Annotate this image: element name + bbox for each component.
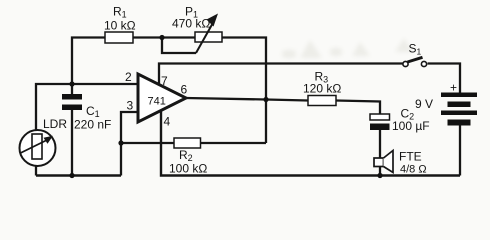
switch S1 contact right xyxy=(421,61,426,66)
svg-text:LDR: LDR xyxy=(43,117,67,131)
wire: P1 right to feedback vertical xyxy=(222,38,266,144)
svg-text:7: 7 xyxy=(161,74,168,88)
capacitor C2 plates xyxy=(370,114,390,130)
battery B1 short plate 2 xyxy=(448,120,471,126)
junction dot: C1 bottom rail xyxy=(69,173,74,178)
svg-text:4: 4 xyxy=(164,115,171,129)
wire: bottom-left rail xyxy=(36,174,121,176)
potentiometer P1 body xyxy=(195,32,222,42)
junction dot: R1/P1 node xyxy=(159,35,164,40)
LDR arrowhead xyxy=(44,136,54,144)
switch S1 contact left xyxy=(403,61,408,66)
junction dot: pin3/R2 node xyxy=(118,140,123,145)
svg-text:6: 6 xyxy=(181,83,188,97)
junction dot: output node xyxy=(263,97,268,102)
wire: pin7 supply to switch xyxy=(159,64,403,85)
wire: C1 bottom leg xyxy=(71,110,73,176)
svg-text:220 nF: 220 nF xyxy=(74,118,111,132)
wire: C2 to speaker xyxy=(379,130,381,158)
battery B1 positive long plate 2 xyxy=(441,111,477,116)
LDR arrow xyxy=(21,140,49,154)
svg-text:3: 3 xyxy=(127,99,134,113)
svg-text:100 µF: 100 µF xyxy=(392,119,430,133)
wire: R1 to P1 xyxy=(133,36,195,38)
battery B1 short plate 1 xyxy=(448,102,471,108)
svg-text:741: 741 xyxy=(148,96,166,108)
wire: battery negative lead xyxy=(459,126,461,176)
svg-text:+: + xyxy=(450,81,457,95)
wire: R1 left leg xyxy=(72,38,105,85)
op-amp U1 741 triangle xyxy=(138,74,186,122)
potentiometer P1 arrowhead xyxy=(207,14,219,27)
speaker FTE frame xyxy=(374,158,384,167)
wire: R2 right leg xyxy=(201,142,267,144)
battery B1 positive long plate 1 xyxy=(441,93,477,98)
wire: pin3 node vertical xyxy=(121,112,138,176)
svg-text:9 V: 9 V xyxy=(415,97,433,111)
wire: op-amp output to R3 xyxy=(186,98,308,101)
wire: R2 left leg from pin3 node xyxy=(121,142,174,144)
svg-text:470 kΩ: 470 kΩ xyxy=(172,17,210,31)
svg-text:10 kΩ: 10 kΩ xyxy=(104,19,136,33)
wire: LDR bottom lead xyxy=(35,166,37,176)
resistor R3 xyxy=(308,96,336,106)
svg-text:FTE: FTE xyxy=(399,150,422,164)
wire: R3 to C2 xyxy=(336,101,380,115)
resistor R1 xyxy=(105,32,133,43)
capacitor C1 plates xyxy=(62,94,82,110)
junction dot: pin2 node xyxy=(69,81,74,86)
wire: pin4 to bottom rail xyxy=(161,111,460,176)
wire: P1 wiper link xyxy=(162,38,196,54)
LDR resistor body xyxy=(32,134,42,159)
wire: C1 top leg xyxy=(71,84,73,94)
svg-text:2: 2 xyxy=(125,70,132,84)
svg-text:4/8 Ω: 4/8 Ω xyxy=(400,164,427,176)
svg-text:100 kΩ: 100 kΩ xyxy=(169,162,207,176)
svg-text:R1: R1 xyxy=(113,5,127,20)
junction dot: speaker bottom rail xyxy=(377,173,382,178)
wire: inverting-input node (pin2 rail, LDR top lead) xyxy=(36,84,138,130)
svg-text:120 kΩ: 120 kΩ xyxy=(303,82,341,96)
potentiometer P1 wiper arrow xyxy=(196,21,214,53)
speaker FTE cone xyxy=(384,151,394,173)
wire: speaker to bottom rail xyxy=(379,167,381,176)
LDR circle xyxy=(20,130,56,166)
resistor R2 xyxy=(174,138,201,148)
switch S1 lever xyxy=(408,57,423,62)
scan artifact speckle xyxy=(282,38,413,58)
svg-text:S1: S1 xyxy=(409,42,422,57)
wire: switch to battery positive xyxy=(428,64,461,93)
